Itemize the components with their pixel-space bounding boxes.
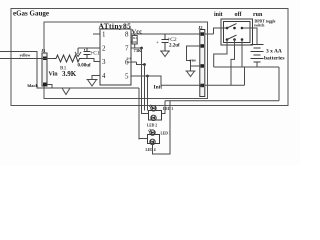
inner board box	[44, 22, 208, 99]
svg-text:Init: Init	[154, 85, 163, 91]
vertical wire v4 pin5 to LED1	[147, 76, 149, 111]
junction pin6	[143, 63, 146, 66]
svg-text:4: 4	[102, 72, 106, 80]
svg-text:yellow: yellow	[20, 53, 31, 58]
svg-text:†C2: †C2	[168, 37, 177, 43]
svg-text:0.08uf: 0.08uf	[78, 64, 92, 69]
svg-text:3: 3	[102, 58, 106, 66]
pin 5	[125, 73, 148, 81]
wire J1 pin2 to ground	[47, 85, 52, 89]
svg-text:ATtiny85: ATtiny85	[99, 21, 132, 30]
wire Init net	[148, 76, 245, 85]
svg-text:†C1: †C1	[91, 51, 100, 57]
svg-text:batteries: batteries	[264, 56, 284, 62]
svg-text:run: run	[253, 12, 263, 18]
svg-text:LED 3: LED 3	[161, 132, 171, 136]
capacitor C2	[162, 34, 169, 51]
LED assembly 2 box	[148, 135, 160, 144]
svg-text:2.2uf: 2.2uf	[169, 44, 180, 49]
wire black	[0, 52, 61, 89]
svg-text:black: black	[28, 83, 39, 88]
svg-text:7: 7	[125, 45, 129, 53]
pin 4	[92, 72, 106, 80]
svg-text:off: off	[235, 12, 243, 18]
wire J2 pin3	[191, 65, 200, 67]
svg-text:PB0: PB0	[190, 59, 196, 63]
svg-text:8: 8	[125, 31, 129, 39]
svg-text:LED 4: LED 4	[146, 148, 156, 152]
LED 1	[149, 105, 156, 111]
wire switch bottom right to Init	[241, 40, 243, 68]
switch lever bottom	[227, 35, 237, 39]
svg-text:2: 2	[102, 45, 106, 53]
LED 2	[151, 115, 156, 120]
ground Gm	[186, 71, 196, 77]
pin 6	[125, 59, 137, 67]
LED assembly 1 box	[149, 111, 162, 121]
pin 3	[94, 58, 106, 66]
svg-text:1: 1	[102, 31, 106, 39]
pin 7	[125, 45, 142, 53]
svg-text:3K: 3K	[127, 60, 132, 64]
wire battery bottom	[256, 62, 258, 67]
wire LED return rail	[165, 100, 279, 102]
vertical wire v3 pin6 to LED1	[144, 65, 146, 111]
LED 4	[150, 139, 155, 144]
wire switch bottom-middle to init	[231, 40, 235, 86]
ground G1	[61, 88, 71, 95]
resistor R1	[53, 55, 82, 62]
resistor R2 10K	[131, 34, 138, 48]
LED 3	[148, 129, 155, 135]
connector J2	[198, 25, 205, 97]
switch contacts bottom row	[226, 38, 244, 41]
wire to init net	[244, 67, 246, 85]
battery B1 3xAA	[251, 45, 264, 63]
wire pin6 jog	[137, 62, 145, 65]
test point arrow on pin2 wire	[75, 48, 81, 57]
svg-text:Vin: Vin	[49, 72, 59, 78]
wire right return	[278, 67, 280, 101]
svg-text:3 x AA: 3 x AA	[266, 49, 282, 55]
svg-text:Vcc: Vcc	[132, 29, 143, 36]
wire battery minus rail	[214, 66, 279, 68]
switch lever top	[227, 24, 237, 28]
wire LED1 return	[162, 101, 166, 114]
ground under C2	[160, 51, 170, 57]
wire pin4 to ground	[92, 76, 100, 80]
outer frame box	[11, 9, 288, 106]
svg-text:J1: J1	[41, 48, 46, 53]
switch S1 box	[221, 19, 253, 45]
pin 1	[93, 31, 106, 39]
connector J1	[41, 48, 47, 86]
junction pin5 Init	[146, 75, 149, 78]
svg-text:LED 2: LED 2	[147, 124, 157, 128]
wire LED2 return	[153, 101, 171, 154]
pin 2	[78, 45, 106, 53]
junction J2 pin4 on Init wire	[200, 84, 203, 87]
vertical wire v2 pin7 to LED1	[142, 48, 149, 114]
wire R1 to pin3	[82, 59, 100, 62]
wire switch to battery top	[242, 28, 257, 45]
capacitor C1	[84, 48, 91, 59]
pin 8	[125, 31, 214, 39]
junction pin7	[140, 47, 143, 50]
svg-text:init: init	[214, 12, 223, 18]
svg-text:5: 5	[125, 73, 129, 81]
wire yellow	[0, 58, 53, 60]
svg-text:+: +	[156, 41, 159, 46]
IC U1 ATtiny85 box	[100, 29, 131, 85]
wire Vcc rail to switch	[214, 28, 228, 34]
svg-text:10K: 10K	[131, 40, 138, 44]
switch contacts top row	[226, 27, 244, 30]
svg-text:eGas Gauge: eGas Gauge	[13, 10, 49, 18]
wire LED2 left	[139, 138, 148, 140]
svg-text:switch: switch	[254, 23, 265, 27]
wire J2 pin2 to ground	[187, 46, 200, 71]
svg-text:J2: J2	[198, 25, 203, 30]
ground G2	[87, 80, 98, 87]
wire switch bottom-left to minus rail	[214, 40, 227, 68]
vertical wire v1 gnd rail to LEDs	[37, 88, 139, 140]
svg-text:3.9K: 3.9K	[62, 70, 77, 78]
